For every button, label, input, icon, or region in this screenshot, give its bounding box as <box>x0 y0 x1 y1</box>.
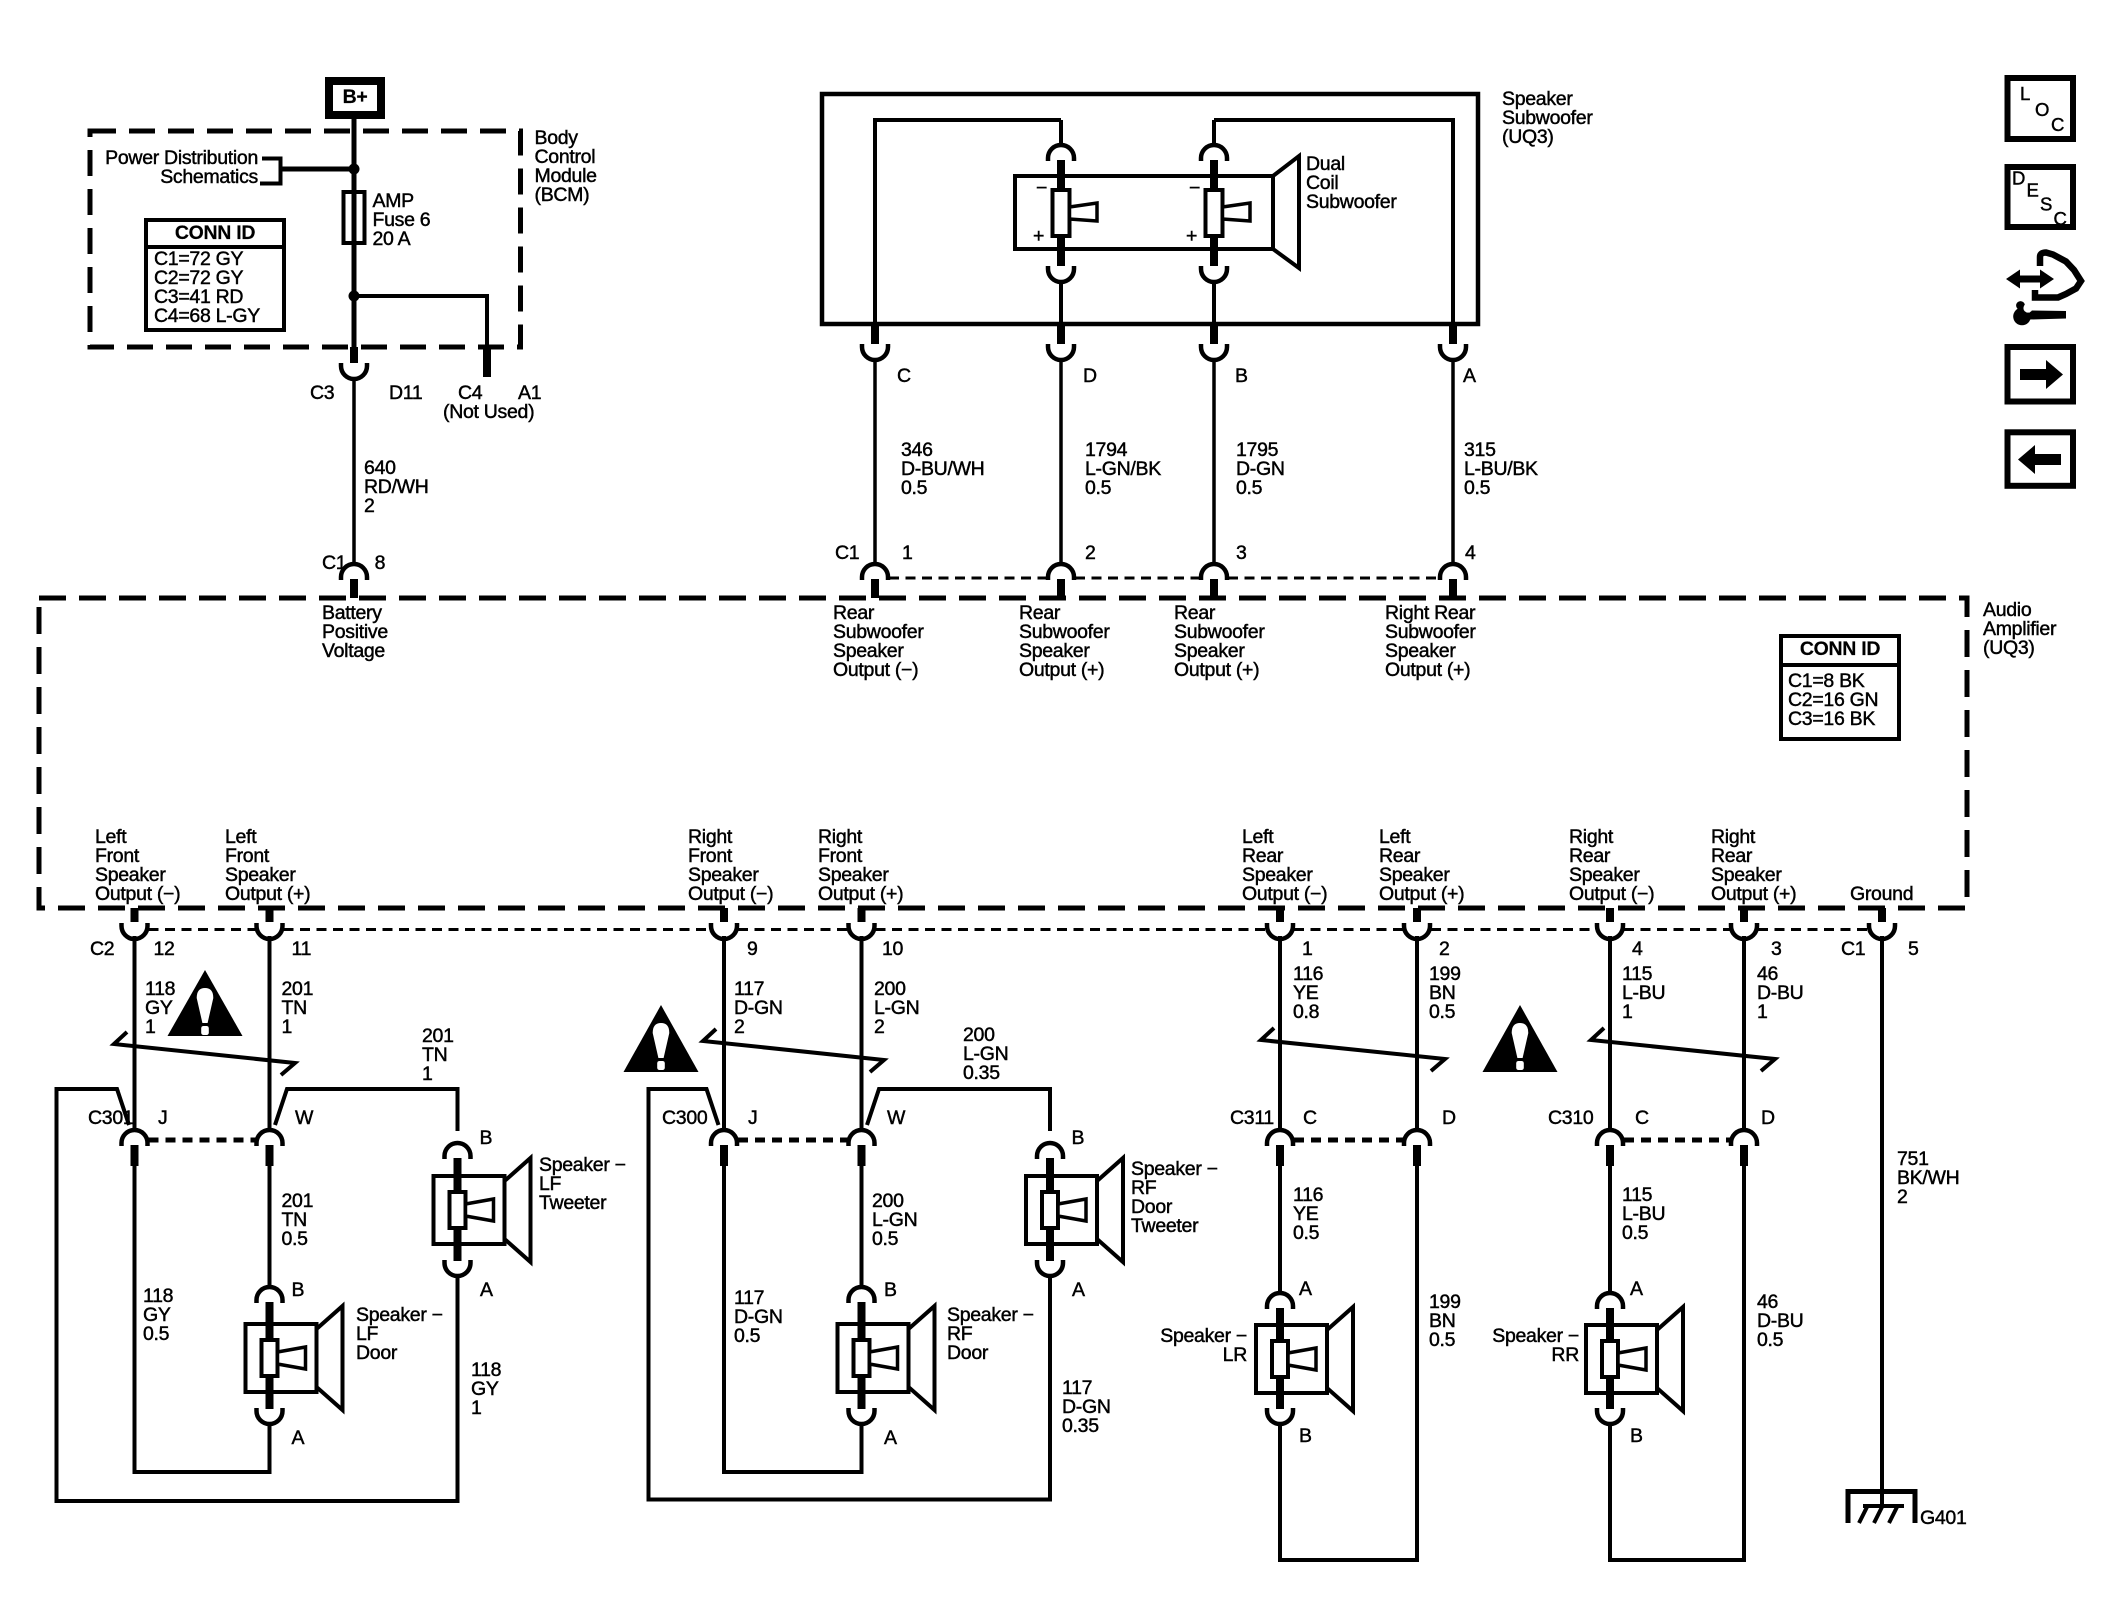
connector C300 pin J <box>662 1107 757 1166</box>
svg-text:1: 1 <box>902 542 913 564</box>
svg-text:B: B <box>1235 365 1248 387</box>
wire 199 BN 0.5 (amp pin 2 to C311 D) <box>1417 936 1461 1131</box>
connector amplifier C1 pin 4 <box>1440 542 1476 598</box>
speaker LR <box>1160 1307 1353 1411</box>
svg-text:Ground: Ground <box>1850 883 1913 905</box>
subwoofer internal wiring right loop <box>1214 118 1455 324</box>
connector RF tweeter pin A <box>1037 1243 1085 1301</box>
connector C311 dashes <box>1294 1138 1403 1143</box>
svg-text:2: 2 <box>1439 938 1450 960</box>
wire 116 YE 0.5 (C311 C to LR speaker A) <box>1280 1166 1323 1294</box>
warning triangle RF <box>624 1005 699 1072</box>
connector amplifier C1 pin 2 <box>1048 542 1096 598</box>
wire 315/L-BU/BK 0.5 <box>1453 358 1538 565</box>
connector amplifier output stub 3 <box>711 908 737 939</box>
connector LF tweeter pin B <box>445 1127 493 1177</box>
connector C310 pin C <box>1548 1107 1649 1166</box>
warning triangle LF <box>168 970 243 1036</box>
svg-text:B: B <box>1072 1127 1085 1149</box>
wire 118 GY 0.5 (J to LF door speaker A) <box>133 1166 272 1474</box>
icon LOC <box>2008 78 2074 139</box>
svg-text:D: D <box>2012 168 2025 189</box>
warning triangle RR <box>1483 1005 1558 1072</box>
connector amplifier output stub 9 <box>1869 908 1895 939</box>
svg-text:J: J <box>158 1107 167 1129</box>
svg-text:C1: C1 <box>1841 938 1865 960</box>
audio amplifier dashed box <box>39 598 1967 908</box>
svg-text:B: B <box>1299 1425 1312 1447</box>
svg-text:E: E <box>2027 180 2039 201</box>
connector amplifier C1 pin 3 <box>1201 542 1247 598</box>
subwoofer internal wiring left loop <box>873 118 1061 324</box>
connector amplifier output stub 1 <box>122 908 148 939</box>
connector C301 pin W <box>257 1107 315 1166</box>
connector RF tweeter pin B <box>1037 1127 1084 1177</box>
svg-text:9: 9 <box>747 938 758 960</box>
connector C300 pin W <box>849 1107 907 1166</box>
svg-text:A: A <box>480 1279 493 1301</box>
amplifier bottom connector row dashes <box>149 928 256 931</box>
svg-text:3: 3 <box>1236 542 1247 564</box>
speaker LF Tweeter <box>434 1154 626 1262</box>
svg-text:C300: C300 <box>662 1107 708 1129</box>
svg-text:D: D <box>1761 1107 1775 1129</box>
connector C301 dashes <box>149 1138 256 1143</box>
svg-text:C: C <box>2054 208 2067 229</box>
svg-text:B: B <box>292 1279 305 1301</box>
svg-text:Right RearSubwooferSpeakerOutp: Right RearSubwooferSpeakerOutput (+) <box>1385 602 1476 681</box>
svg-text:C: C <box>2051 114 2064 135</box>
pin labels C4 A1 (Not Used) <box>443 382 541 423</box>
icon arrow left <box>2008 432 2074 486</box>
connector amplifier output stub 4 <box>849 908 875 939</box>
svg-text:A: A <box>884 1427 897 1449</box>
connector subwoofer pin B <box>1201 324 1248 387</box>
wire 117 D-GN 2 (amp pin 9 to C300 J) <box>724 936 783 1131</box>
connector arc coil 1 top <box>1048 145 1074 190</box>
icon mechanical repair (arrows and wrench) <box>2006 253 2081 326</box>
connector LF door speaker pin B <box>257 1279 305 1325</box>
wire 640 RD/WH 2 <box>354 377 429 565</box>
svg-text:CONN ID: CONN ID <box>175 222 255 244</box>
wire 117 D-GN 0.5 (J to RF door speaker A) <box>722 1166 864 1474</box>
connector C1 pin 8 (amplifier battery feed) <box>322 552 385 598</box>
svg-text:10: 10 <box>882 938 904 960</box>
connector arc coil 2 top <box>1201 145 1227 190</box>
speaker RR <box>1492 1307 1683 1411</box>
svg-text:W: W <box>887 1107 906 1129</box>
svg-text:CONN ID: CONN ID <box>1800 638 1880 660</box>
fuse AMP Fuse 6 20 A <box>344 190 431 296</box>
svg-text:5: 5 <box>1908 938 1919 960</box>
junction B+/Power Distribution <box>349 164 360 175</box>
connector subwoofer pin D <box>1048 324 1097 387</box>
svg-text:4: 4 <box>1465 542 1476 564</box>
LF door harness outline / tweeter feed 201 TN 1 <box>57 1025 458 1501</box>
speaker LF Door <box>246 1304 443 1410</box>
svg-text:O: O <box>2035 99 2049 120</box>
svg-text:−: − <box>1189 177 1200 199</box>
svg-text:2: 2 <box>1085 542 1096 564</box>
wire 200 L-GN 0.5 (W to RF door speaker B) <box>862 1166 918 1288</box>
wire fuse to connector C3 <box>352 296 357 349</box>
svg-text:C1: C1 <box>322 552 346 574</box>
svg-text:A: A <box>1072 1279 1085 1301</box>
ground G401 <box>1848 1492 1967 1530</box>
connector amplifier output stub 5 <box>1267 908 1293 939</box>
svg-text:B: B <box>480 1127 493 1149</box>
connector table CONN ID (BCM) <box>146 220 284 330</box>
connector C310 pin D <box>1731 1107 1775 1166</box>
connector amplifier output stub 2 <box>257 908 283 939</box>
connector RF door speaker pin B <box>849 1279 897 1325</box>
RF door harness outline / tweeter feed 200 L-GN 0.35 <box>649 1024 1051 1499</box>
connector amplifier output stub 8 <box>1731 908 1757 939</box>
dual coil subwoofer body <box>1015 176 1273 249</box>
amplifier input labels (top row) <box>322 602 1476 681</box>
svg-text:4: 4 <box>1632 938 1643 960</box>
svg-text:J: J <box>748 1107 757 1129</box>
wire 115 L-BU 1 (amp pin 4 to C310 C) <box>1610 936 1665 1131</box>
BCM dashed box (Body Control Module) <box>90 131 521 347</box>
svg-text:C310: C310 <box>1548 1107 1594 1129</box>
svg-text:A: A <box>1463 365 1476 387</box>
connector C310 dashes <box>1624 1138 1730 1143</box>
connector table CONN ID (amplifier) <box>1781 636 1899 739</box>
amplifier output labels (bottom row) <box>95 826 1913 905</box>
icon DESC <box>2008 167 2074 229</box>
wire 116 YE 0.8 (amp pin 1 to C311 C) <box>1280 936 1323 1131</box>
connector arc coil 2 bottom <box>1201 236 1227 324</box>
connector C3 / D11 <box>310 347 422 404</box>
connector LR speaker pin A <box>1267 1278 1312 1326</box>
svg-text:A: A <box>292 1427 305 1449</box>
subwoofer big horn <box>1273 156 1299 268</box>
svg-text:D11: D11 <box>389 382 422 404</box>
wire branch to C4 A1 (Not Used) <box>354 294 491 377</box>
connector amplifier output stub 7 <box>1597 908 1623 939</box>
wire 46 D-BU 1 (amp pin 3 to C310 D) <box>1744 936 1803 1131</box>
svg-text:D: D <box>1442 1107 1456 1129</box>
svg-text:C3: C3 <box>310 382 334 404</box>
connector subwoofer pin A <box>1440 324 1476 387</box>
twisted pair marker RR <box>1591 1028 1775 1071</box>
svg-text:8: 8 <box>375 552 386 574</box>
wire 1795/D-GN 0.5 <box>1214 358 1285 565</box>
svg-text:BatteryPositiveVoltage: BatteryPositiveVoltage <box>322 602 388 662</box>
svg-text:+: + <box>1033 225 1044 247</box>
svg-text:−: − <box>1036 177 1047 199</box>
label Power Distribution Schematics with bracket <box>105 147 352 188</box>
svg-text:G401: G401 <box>1920 1507 1967 1529</box>
svg-text:L: L <box>2020 83 2030 104</box>
svg-text:12: 12 <box>154 938 175 960</box>
connector LR speaker pin B <box>1267 1393 1312 1560</box>
twisted pair marker RF <box>703 1029 884 1072</box>
speaker RF Door Tweeter <box>1026 1158 1218 1262</box>
connector C301 pin J <box>88 1107 167 1166</box>
svg-text:118GY0.5: 118GY0.5 <box>143 1285 173 1345</box>
wire 46 D-BU 0.5 (RR speaker B to C310 D) <box>1608 1166 1803 1562</box>
connector RR speaker pin B <box>1597 1393 1643 1560</box>
connector C311 pin C <box>1230 1107 1317 1166</box>
connector C300 dashes <box>738 1138 848 1143</box>
voice coil 2 with polarity labels <box>1186 177 1250 247</box>
connector RR speaker pin A <box>1597 1278 1643 1326</box>
connector subwoofer pin C <box>862 324 911 387</box>
svg-text:C: C <box>1635 1107 1649 1129</box>
svg-text:B: B <box>1630 1425 1643 1447</box>
svg-text:11: 11 <box>292 938 312 960</box>
wire 115 L-BU 0.5 (C310 C to RR speaker A) <box>1610 1166 1665 1294</box>
svg-text:(Not Used): (Not Used) <box>443 401 534 423</box>
voice coil 1 with polarity labels <box>1033 177 1097 247</box>
svg-text:A: A <box>1630 1278 1643 1300</box>
connector LF tweeter pin A <box>445 1243 494 1301</box>
svg-text:C1: C1 <box>835 542 859 564</box>
svg-text:C2: C2 <box>90 938 114 960</box>
svg-text:C311: C311 <box>1230 1107 1274 1129</box>
svg-text:S: S <box>2040 194 2052 215</box>
svg-text:A: A <box>1299 1278 1312 1300</box>
svg-text:B+: B+ <box>343 86 368 108</box>
junction fuse output / C4 branch <box>349 291 360 302</box>
twisted pair marker LR <box>1261 1028 1445 1071</box>
icon arrow right <box>2008 347 2074 402</box>
wire 201 TN 0.5 (W to LF door speaker B) <box>270 1166 314 1288</box>
svg-text:1: 1 <box>1302 938 1313 960</box>
twisted pair marker LF <box>114 1032 295 1075</box>
connector C311 pin D <box>1404 1107 1456 1166</box>
speaker RF Door <box>838 1304 1034 1410</box>
wire 200 L-GN 2 (amp pin 10 to C300 W) <box>862 936 920 1131</box>
svg-text:C: C <box>897 365 911 387</box>
svg-text:W: W <box>295 1107 314 1129</box>
connector LF door speaker pin A <box>257 1391 305 1472</box>
wire 118 GY 1 (amp pin 12 to C301 J) <box>135 936 176 1131</box>
svg-text:B: B <box>884 1279 897 1301</box>
power symbol B+ <box>329 81 382 116</box>
connector arc coil 1 bottom <box>1048 236 1074 324</box>
connector amplifier output stub 6 <box>1404 908 1430 939</box>
wire 751 BK/WH 2 (amp pin 5 to G401) <box>1882 936 1959 1506</box>
svg-text:C: C <box>1303 1107 1317 1129</box>
wire 346/D-BU/WH 0.5 <box>875 358 984 565</box>
svg-text:D: D <box>1083 365 1097 387</box>
connector RF door speaker pin A <box>849 1391 898 1472</box>
svg-text:3: 3 <box>1771 938 1782 960</box>
wire 1794/L-GN/BK 0.5 <box>1061 358 1161 565</box>
connector row dashes C1 pins 1-4 <box>889 577 1047 580</box>
wire B+ to fuse <box>352 118 357 194</box>
svg-text:+: + <box>1186 225 1197 247</box>
amplifier bottom pin labels <box>90 938 1919 960</box>
wire 199 BN 0.5 (LR speaker B to C311 D) <box>1278 1166 1461 1562</box>
connector amplifier C1 pin 1 <box>862 542 913 598</box>
wire 201 TN 1 (amp pin 11 to C301 W) <box>270 936 314 1131</box>
speaker subwoofer enclosure box (UQ3) <box>822 94 1478 324</box>
